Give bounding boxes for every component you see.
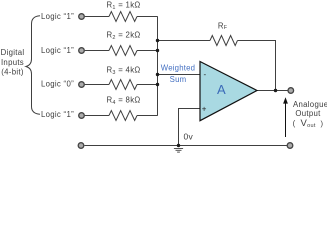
svg-text:Logic “1”: Logic “1” [41,12,74,21]
svg-text:R4 = 8kΩ: R4 = 8kΩ [106,96,140,107]
svg-text:R3 = 4kΩ: R3 = 4kΩ [106,65,140,76]
svg-text:Output: Output [295,109,321,118]
svg-text:Sum: Sum [170,75,187,84]
svg-text:(4-bit): (4-bit) [1,68,24,77]
svg-text:R2 = 2kΩ: R2 = 2kΩ [106,30,140,41]
svg-text:0v: 0v [184,132,194,142]
svg-text:-: - [204,70,207,79]
svg-text:Logic “0”: Logic “0” [41,80,74,89]
svg-text:Logic “1”: Logic “1” [41,46,74,55]
svg-text:Inputs: Inputs [1,58,24,67]
svg-text:+: + [202,104,207,113]
svg-text:A: A [217,82,226,97]
svg-text:RF: RF [218,22,228,31]
svg-text:Logic “1”: Logic “1” [41,110,74,119]
svg-text:( Vout ): ( Vout ) [293,118,324,129]
svg-text:R1 = 1kΩ: R1 = 1kΩ [106,1,140,12]
svg-text:Digital: Digital [1,48,25,57]
svg-text:Analogue: Analogue [293,100,327,109]
svg-text:Weighted: Weighted [161,63,195,72]
